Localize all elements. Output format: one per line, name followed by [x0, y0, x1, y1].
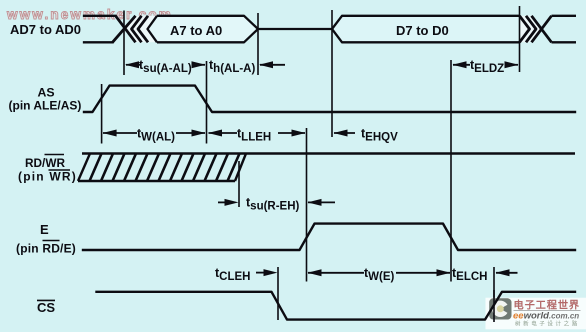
arrow left into x258 — [259, 61, 285, 68]
bus transition X right — [532, 16, 552, 43]
svg-text:(pin WR): (pin WR) — [18, 170, 77, 184]
svg-text:AD7 to AD0: AD7 to AD0 — [10, 22, 81, 37]
tick at x239 — [238, 161, 240, 207]
waveform E — [83, 224, 575, 250]
waveform CS — [97, 292, 576, 320]
bus A7 to A0 body — [148, 16, 259, 43]
bus transition zone fill left — [126, 16, 158, 43]
waveform AS — [84, 86, 575, 112]
bus mid single line — [258, 28, 332, 30]
tick at x306.5 long — [306, 128, 308, 282]
hatch strokes — [90, 154, 240, 182]
svg-text:E: E — [40, 222, 49, 237]
svg-text:eeworld.com.cn: eeworld.com.cn — [513, 311, 579, 322]
tick at x519.5 — [519, 6, 521, 72]
tick at x494 — [493, 267, 495, 322]
svg-text:AS: AS — [38, 86, 55, 100]
svg-text:A7 to A0: A7 to A0 — [170, 23, 222, 38]
dimension tLLEH — [208, 130, 306, 137]
bus transition X left — [113, 16, 136, 43]
svg-text:RD/WR: RD/WR — [25, 156, 65, 170]
bus open segment right — [552, 16, 577, 43]
arrow tCLEH into x278 — [256, 269, 278, 276]
tick at x124 — [123, 11, 125, 76]
bus close chevrons right — [520, 16, 537, 43]
dimension tW(AL) — [103, 130, 206, 137]
bus D7 to D0 body — [332, 16, 520, 43]
tick at x494 over logo — [493, 290, 495, 322]
tick at x451 long — [450, 60, 452, 282]
svg-text:CS: CS — [37, 300, 55, 315]
dimension tW(E) — [308, 269, 451, 276]
bus AD open segment left — [84, 16, 116, 43]
logo box eeworld — [486, 298, 586, 330]
tick at x258 — [257, 13, 259, 75]
dimension tELDZ — [453, 61, 519, 68]
bus chevron pair left — [132, 16, 149, 43]
waveform RD/WR hatched band — [78, 154, 575, 182]
bus transition zone fill right — [520, 16, 542, 43]
svg-text:D7 to D0: D7 to D0 — [396, 23, 449, 38]
dimension tsu(A-AL) — [125, 61, 206, 68]
dimension tsu(R-EH) — [218, 199, 335, 206]
svg-text:(pin RD/E): (pin RD/E) — [16, 242, 76, 256]
svg-text:(pin ALE/AS): (pin ALE/AS) — [9, 99, 82, 113]
arrow tELCH into x494 — [496, 269, 518, 276]
tick at x278 — [277, 267, 279, 320]
tick at x101.6 — [101, 84, 103, 144]
dimension tEHQV arrow — [334, 130, 356, 137]
tick at x332 long — [331, 10, 333, 137]
tick at x206.5 — [206, 61, 208, 144]
svg-text:树新电子设计之路: 树新电子设计之路 — [515, 320, 580, 328]
